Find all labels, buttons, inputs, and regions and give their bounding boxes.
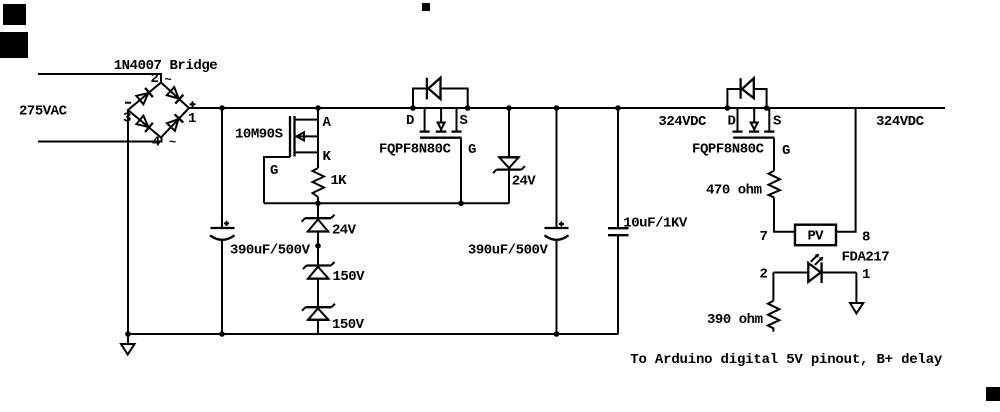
wire zener link 1 xyxy=(317,232,319,266)
svg-text:~: ~ xyxy=(169,136,176,150)
junction dot gate bus at G1 xyxy=(458,201,464,207)
zener D8 24V xyxy=(493,108,525,203)
wire AC top line xyxy=(38,74,161,83)
svg-text:24V: 24V xyxy=(512,174,537,190)
LED arrows xyxy=(811,254,824,265)
transistor Q1 10M90S xyxy=(317,108,319,168)
wire LED anode xyxy=(773,272,808,274)
capacitor C1 390uF/500V xyxy=(221,108,223,227)
scan artifact bottom-right xyxy=(986,387,1000,401)
scan artifact top-center xyxy=(422,3,430,11)
svg-text:A: A xyxy=(323,115,332,131)
wire main positive rail xyxy=(189,107,945,109)
junction dot D1 right xyxy=(465,105,471,111)
ground symbol xyxy=(127,334,129,344)
svg-text:1: 1 xyxy=(862,267,870,283)
svg-text:4: 4 xyxy=(152,134,160,150)
svg-text:390uF/500V: 390uF/500V xyxy=(468,243,549,259)
svg-text:PV: PV xyxy=(808,229,825,245)
bridge plus xyxy=(190,103,196,105)
junction dot cap C1 bottom xyxy=(219,331,225,337)
svg-text:1K: 1K xyxy=(331,173,348,189)
wire bottom ground rail xyxy=(128,333,619,335)
optocoupler U1 PV box xyxy=(795,225,836,246)
scan artifact top-left 2 xyxy=(0,32,28,58)
wire gate drive bus xyxy=(264,202,509,204)
svg-text:275VAC: 275VAC xyxy=(19,104,68,120)
resistor R2 470 ohm xyxy=(769,171,781,198)
capacitor C2 390uF/500V xyxy=(556,108,558,227)
diode D2 bypass loop Q3 xyxy=(727,78,766,108)
svg-text:S: S xyxy=(460,113,468,129)
svg-text:2: 2 xyxy=(760,267,768,283)
transistor Q3 FQPF8N80C xyxy=(733,108,775,171)
svg-text:D: D xyxy=(406,113,414,129)
junction dot ground rail left xyxy=(125,331,131,337)
diode bridge bottom-right xyxy=(167,114,184,131)
svg-text:324VDC: 324VDC xyxy=(876,114,925,130)
wire AC bottom line xyxy=(38,138,162,142)
svg-text:10M90S: 10M90S xyxy=(235,126,283,142)
junction dot zener D8 top xyxy=(506,105,512,111)
bridge rectifier diamond xyxy=(128,83,189,138)
junction dot D2 right xyxy=(764,105,770,111)
svg-text:324VDC: 324VDC xyxy=(658,114,707,130)
wire zener link 2 xyxy=(317,279,319,308)
svg-text:FQPF8N80C: FQPF8N80C xyxy=(379,141,452,157)
junction dot D2 left xyxy=(725,105,731,111)
junction dot zener link xyxy=(315,243,321,249)
wire pin1 down xyxy=(855,273,857,304)
zener D6 150V xyxy=(303,262,335,279)
diode bridge top-right xyxy=(167,87,184,104)
svg-text:G: G xyxy=(782,143,790,159)
svg-text:~: ~ xyxy=(165,73,172,87)
wire R2 to PV xyxy=(774,197,795,231)
svg-text:1N4007 Bridge: 1N4007 Bridge xyxy=(114,58,218,74)
bridge minus xyxy=(125,102,131,104)
wire zener chain top xyxy=(317,197,319,218)
junction dot cap C3 top xyxy=(615,105,621,111)
junction dot cap C2 bottom xyxy=(554,331,560,337)
LED D3 of FDA217 xyxy=(808,262,821,283)
junction dot gate bus at zener chain xyxy=(315,201,321,207)
svg-text:To Arduino digital 5V pinout,: To Arduino digital 5V pinout, B+ delay xyxy=(630,352,943,368)
svg-text:390uF/500V: 390uF/500V xyxy=(230,243,311,259)
svg-text:470 ohm: 470 ohm xyxy=(706,183,762,199)
svg-text:7: 7 xyxy=(760,229,768,245)
junction dot D1 left xyxy=(410,105,416,111)
wire pin2 down xyxy=(772,273,774,301)
svg-text:FDA217: FDA217 xyxy=(842,250,890,266)
capacitor C3 10uF/1KV xyxy=(617,108,619,228)
scan artifact top-left 1 xyxy=(3,4,26,25)
wire PV to rail xyxy=(836,108,856,232)
svg-text:390 ohm: 390 ohm xyxy=(707,312,763,328)
svg-text:24V: 24V xyxy=(332,223,357,239)
svg-text:10uF/1KV: 10uF/1KV xyxy=(623,216,688,232)
resistor R3 390 ohm xyxy=(768,301,780,332)
arrow terminal pin1 xyxy=(850,303,863,313)
junction dot cap C1 top xyxy=(219,105,225,111)
junction dot node A xyxy=(315,105,321,111)
diode bridge bottom-left xyxy=(136,115,153,132)
svg-text:2: 2 xyxy=(151,71,159,87)
svg-text:S: S xyxy=(773,114,781,130)
svg-text:K: K xyxy=(323,149,332,165)
svg-text:1: 1 xyxy=(188,111,196,127)
svg-text:G: G xyxy=(468,142,476,158)
svg-text:150V: 150V xyxy=(332,317,365,333)
wire LED cathode xyxy=(822,272,857,274)
junction dot cap C2 top xyxy=(554,105,560,111)
svg-text:G: G xyxy=(270,163,278,179)
wire zener chain bottom xyxy=(317,320,319,334)
svg-text:150V: 150V xyxy=(333,269,366,285)
wire left vertical to ground rail xyxy=(127,110,129,334)
zener D5 24V xyxy=(302,215,335,232)
resistor R1 1K xyxy=(313,168,325,197)
zener D7 150V xyxy=(302,304,335,320)
transistor Q2 FQPF8N80C xyxy=(420,108,462,203)
diode bridge top-left xyxy=(136,88,153,105)
svg-text:8: 8 xyxy=(862,229,870,245)
svg-text:FQPF8N80C: FQPF8N80C xyxy=(692,141,765,157)
svg-text:D: D xyxy=(728,114,736,130)
diode D1 bypass loop Q2 xyxy=(413,78,468,108)
